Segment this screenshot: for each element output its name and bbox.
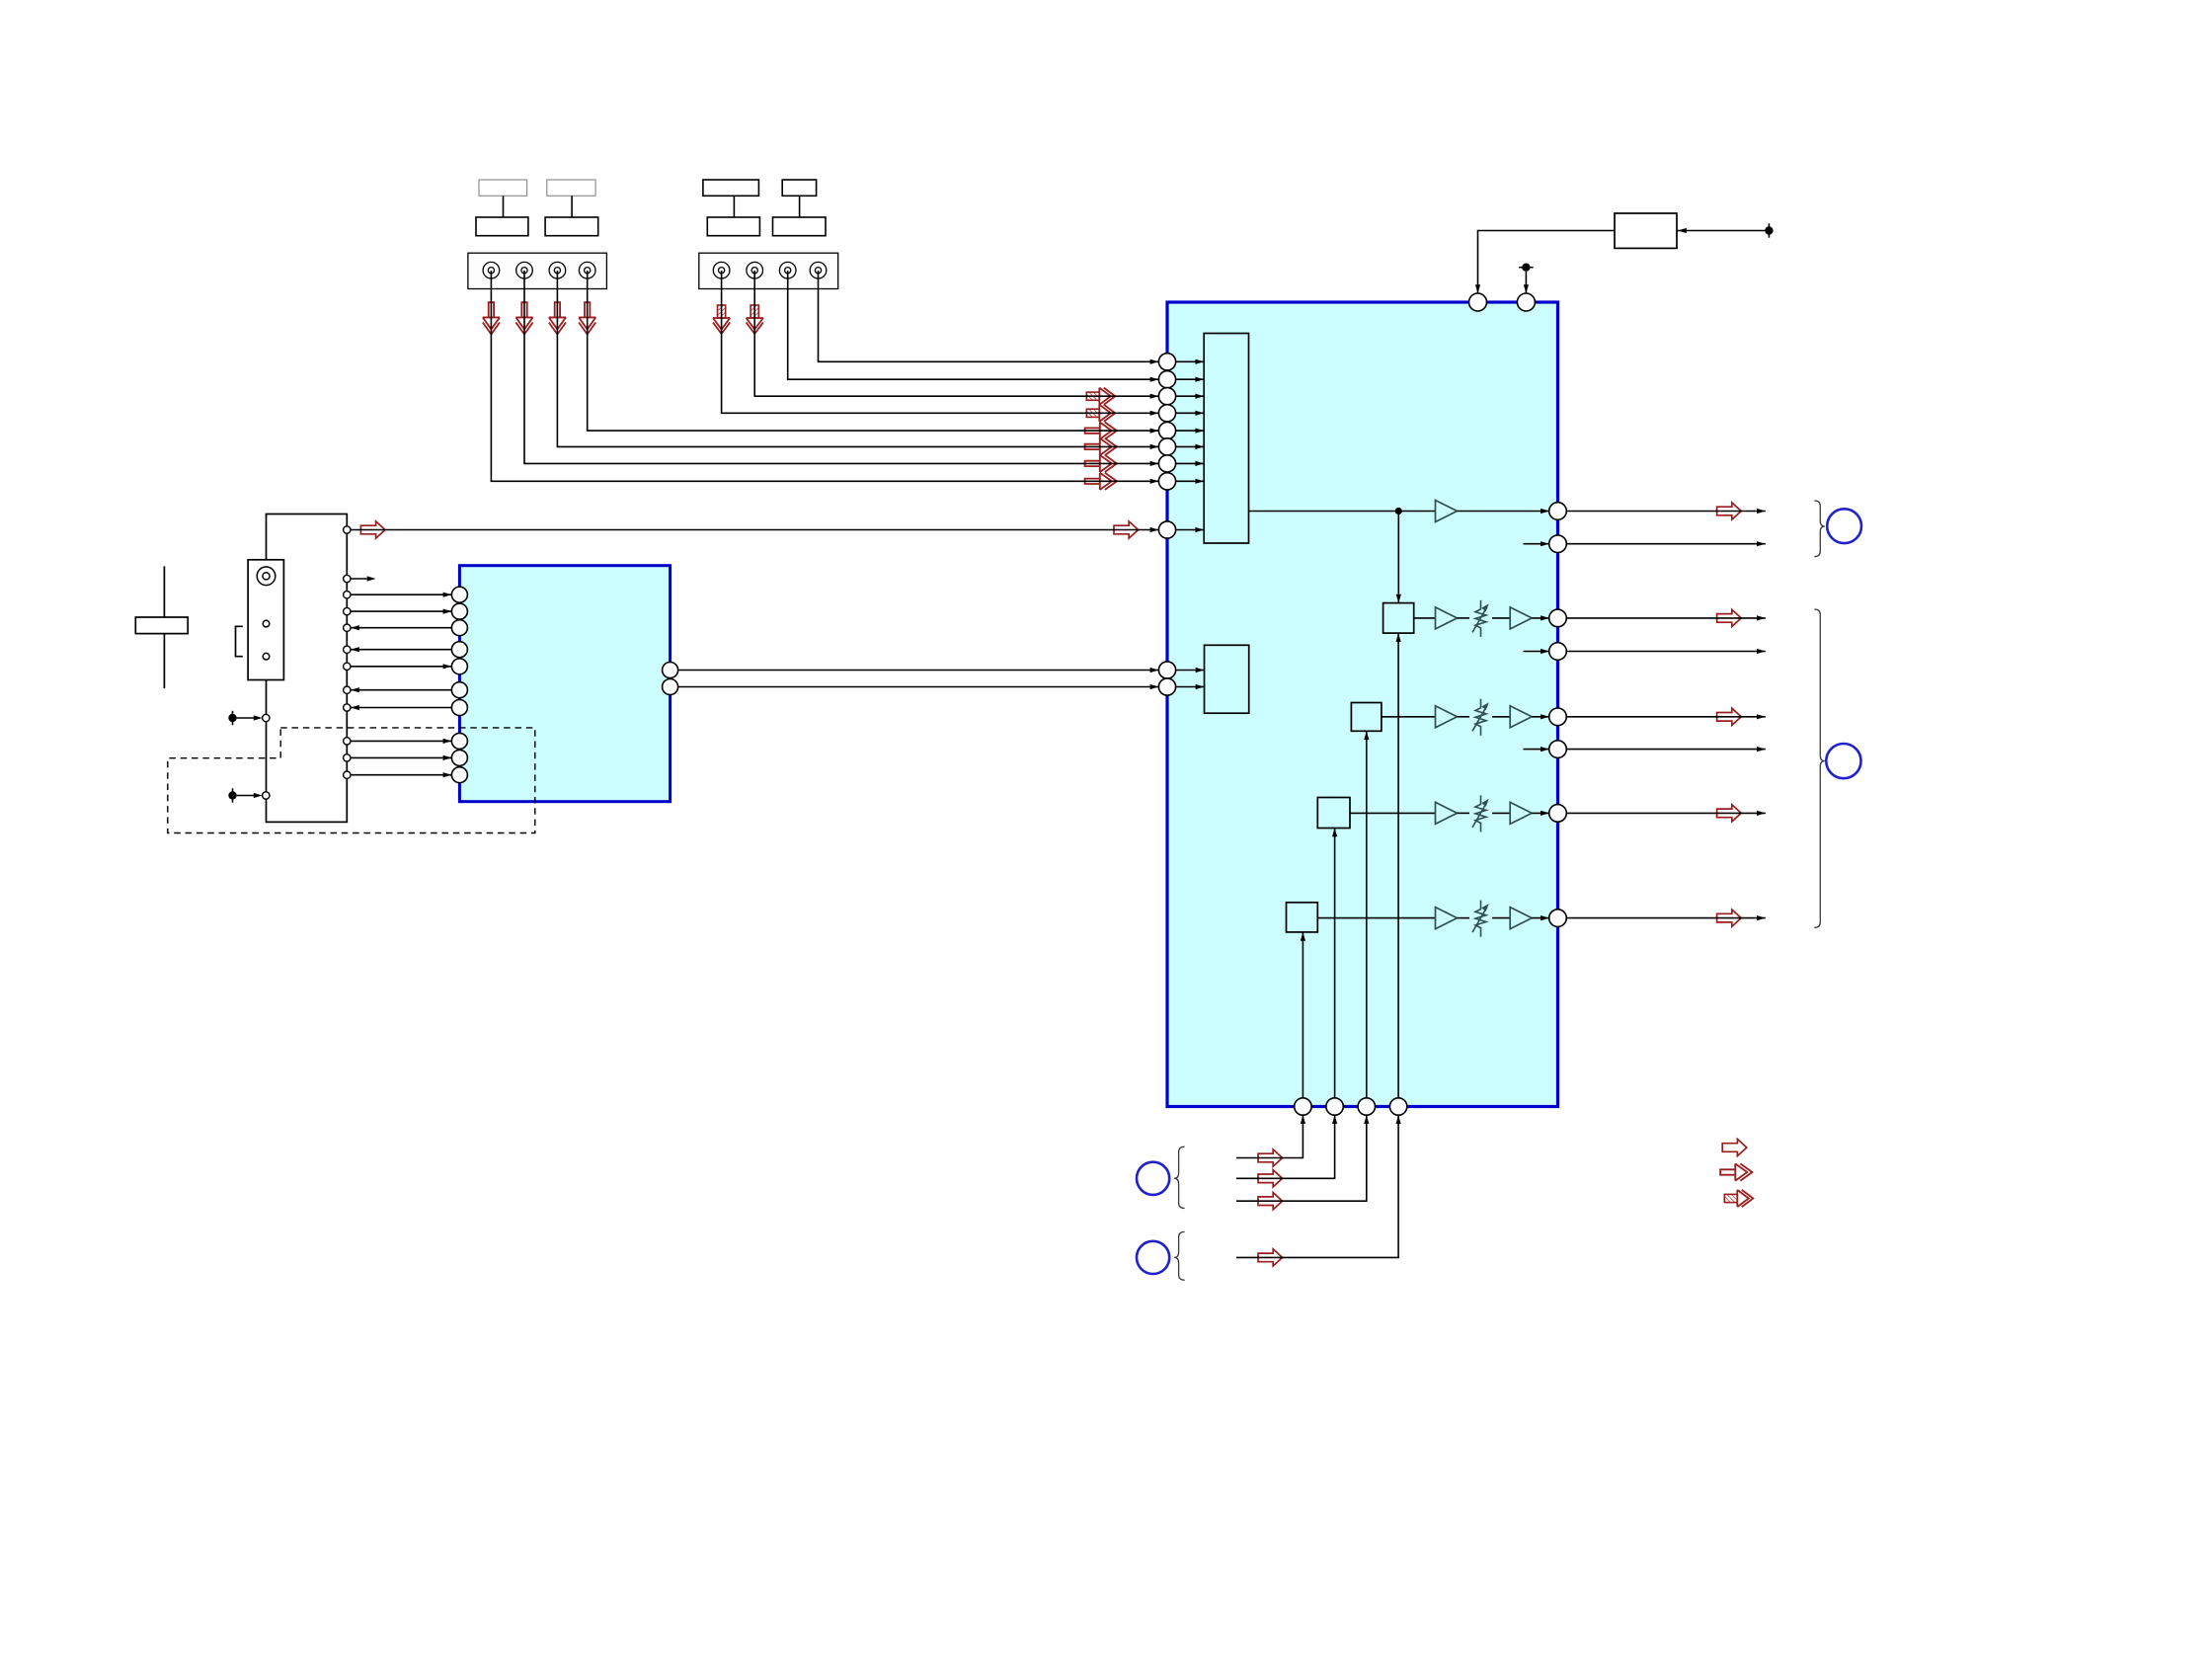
amp A3 row 726 xyxy=(1436,706,1458,728)
variable attenuator row 930 xyxy=(1475,901,1486,937)
wire amp to pin row 930 xyxy=(1532,917,1549,919)
wire stub to pin 1545 xyxy=(1525,272,1527,293)
wire amp to attenuator row 930 xyxy=(1458,917,1470,919)
brace control group 2 xyxy=(1174,1231,1185,1280)
frame pin dangling xyxy=(344,575,351,582)
wire control input 4 xyxy=(1258,1249,1283,1266)
frame pin left 2 xyxy=(263,792,270,799)
amp B3 row 726 xyxy=(1510,706,1532,728)
wire amp to pin row 726 xyxy=(1532,716,1549,718)
volume block VR2 xyxy=(1351,703,1382,732)
RCA jack panel J1 xyxy=(468,253,607,288)
volume block VR4 xyxy=(1287,903,1318,932)
pin circle IC1 input row 401 xyxy=(1158,388,1175,405)
amp B4 row 823 xyxy=(1510,802,1532,824)
frame-IC2 wire row 636 (L) xyxy=(344,624,351,631)
aux decoder block xyxy=(1205,645,1249,713)
signal arrow (hatched) row 418 xyxy=(1086,405,1115,422)
volume block VR1 xyxy=(1383,603,1414,634)
frame-IC2 wire row 750 (R) xyxy=(344,738,351,745)
switch contact small 1 xyxy=(263,620,270,627)
switch contact (double circle) xyxy=(257,567,276,586)
frame-IC2 wire row 699 (L) xyxy=(344,686,351,693)
return stub row 660 xyxy=(1524,651,1549,653)
wire jack x=828.5 to input row 366 xyxy=(819,271,1159,361)
wire amp to attenuator row 726 xyxy=(1458,716,1470,718)
wire attenuator to amp row 726 xyxy=(1492,716,1510,718)
wire jack x=564.4 to input row 452 xyxy=(557,271,1158,446)
connector ref CN4 xyxy=(1137,1241,1169,1274)
wire volume VR3 to amp xyxy=(1350,812,1436,814)
amp B2 row 626 xyxy=(1510,607,1532,629)
RCA jack J1-3 xyxy=(549,262,566,278)
brace output group 2 xyxy=(1814,609,1825,927)
wire jack x=764.2 to input row 401 xyxy=(754,271,1158,396)
return stub row 759 xyxy=(1524,749,1549,751)
signal arrow (hatched) row 401 xyxy=(1086,388,1115,405)
legend arrow chevron xyxy=(1720,1163,1752,1180)
pin circle IC1 input row 536 xyxy=(1158,521,1175,538)
frame pin left 1 xyxy=(263,714,270,721)
switch contact small 2 xyxy=(263,653,270,660)
wire switch to IC1 input row 536 xyxy=(360,521,385,538)
signal arrow (chevron) below jack x=531.0 xyxy=(515,302,532,334)
amp A2 row 626 xyxy=(1436,607,1458,629)
RCA jack J1-2 xyxy=(516,262,533,278)
signal arrow (hatched) below jack x=730.6 xyxy=(713,305,730,334)
RCA jack panel J2 xyxy=(699,253,838,288)
buffer amp A1 row 517 xyxy=(1436,501,1458,522)
variable attenuator row 626 xyxy=(1475,600,1486,637)
variable attenuator row 726 xyxy=(1475,699,1486,736)
frame-IC2 wire row 619 (R) xyxy=(344,607,351,614)
frame-IC2 wire row 675 (R) xyxy=(344,663,351,670)
wire IC2 to IC1 row 696 xyxy=(678,686,1159,688)
wire attenuator to amp row 626 xyxy=(1492,617,1510,619)
brace output group 1 xyxy=(1814,501,1825,557)
signal arrow (chevron) row 469 xyxy=(1085,455,1117,472)
amp A4 row 823 xyxy=(1436,802,1458,824)
pin circle IC1 input row 366 xyxy=(1158,354,1175,370)
wire jack x=594.7 to input row 436 xyxy=(588,271,1159,431)
wire amp to pin row 517 xyxy=(1458,511,1549,513)
frame-IC2 wire row 602 (R) xyxy=(344,592,351,598)
connector ref CN1 xyxy=(1827,509,1861,543)
output pin+line row 626 xyxy=(1549,609,1567,627)
signal arrow (chevron) below jack x=564.4 xyxy=(549,302,566,334)
amp B5 row 930 xyxy=(1510,908,1532,929)
connector symbol P1 top half xyxy=(479,180,527,196)
RCA jack J2-1 xyxy=(713,262,730,278)
frame pin out (to IC1) xyxy=(344,526,351,533)
pin circle IC1 bottom 4 xyxy=(1389,1098,1406,1115)
switch frame xyxy=(267,515,348,823)
return stub row 551 xyxy=(1524,543,1549,545)
legend arrow hatched xyxy=(1724,1190,1753,1207)
signal arrow (chevron) row 487 xyxy=(1085,473,1117,490)
wire amp to attenuator row 626 xyxy=(1458,617,1470,619)
output pin+line row 518 xyxy=(1549,503,1567,520)
output pin+line row 551 xyxy=(1549,535,1567,553)
wire supply to regulator xyxy=(1677,230,1769,232)
output pin+line row 726 xyxy=(1549,708,1567,726)
pin circle IC2 out row 695 xyxy=(663,679,678,695)
pin circle IC1 top 2 xyxy=(1517,293,1535,311)
signal arrow (chevron) row 436 xyxy=(1085,423,1117,439)
wire IC2 to IC1 row 678 xyxy=(678,670,1159,672)
wire jack x=730.6 to input row 418 xyxy=(722,271,1159,413)
wire volume VR2 to amp xyxy=(1382,716,1436,718)
wire amp to attenuator row 823 xyxy=(1458,812,1470,814)
pin circle IC1 top 1 xyxy=(1469,293,1487,311)
output pin+line row 660 xyxy=(1549,643,1567,661)
wire bottom pin 3 to volume xyxy=(1366,731,1368,1098)
switch actuator bracket xyxy=(236,626,243,656)
wire selector output row 517 xyxy=(1249,511,1436,513)
pin circle IC1 input row 384 xyxy=(1158,371,1175,388)
RCA jack J2-4 xyxy=(810,262,827,278)
net stub frame 1 xyxy=(232,711,234,725)
switch body xyxy=(248,560,283,680)
legend arrow plain xyxy=(1722,1139,1747,1155)
IC block IC1 (main signal processor) xyxy=(1167,302,1558,1107)
pin circle IC1 bottom 1 xyxy=(1295,1098,1311,1115)
signal arrow (chevron) row 452 xyxy=(1085,438,1117,455)
frame-IC2 wire row 767 (R) xyxy=(344,754,351,761)
connector symbol P4 xyxy=(782,180,816,196)
dashed option outline xyxy=(168,728,535,833)
signal arrow (chevron) below jack x=594.7 xyxy=(579,302,595,334)
IC block IC2 (left sub processor) xyxy=(459,566,670,802)
wire jack x=497.4 to input row 487 xyxy=(491,271,1158,481)
output pin+line row 930 xyxy=(1549,910,1567,927)
pin circle IC1 input row 469 xyxy=(1158,455,1175,472)
RCA jack J1-4 xyxy=(579,262,595,278)
pin circle IC1 input row 436 xyxy=(1158,423,1175,439)
wire control input 2 xyxy=(1258,1170,1283,1187)
pin circle IC1 aux input row 696 xyxy=(1158,678,1175,695)
wire amp to pin row 626 xyxy=(1532,617,1549,619)
wire jack x=531.0 to input row 469 xyxy=(524,271,1158,463)
RCA jack J1-1 xyxy=(483,262,500,278)
RCA jack J2-2 xyxy=(747,262,763,278)
wire control input 1 xyxy=(1258,1149,1283,1166)
connector ref CN2 xyxy=(1826,744,1860,778)
net stub supply xyxy=(1768,223,1770,237)
wire bottom pin 2 to volume xyxy=(1334,829,1336,1098)
signal arrow (hatched) below jack x=764.2 xyxy=(747,305,763,334)
regulator block xyxy=(1615,213,1677,248)
net stub to pin 1545 xyxy=(1519,267,1533,269)
wire attenuator to amp row 823 xyxy=(1492,812,1510,814)
signal arrow (chevron) below jack x=497.4 xyxy=(483,302,500,334)
pin circle IC1 aux input row 678 xyxy=(1158,662,1175,678)
amp A5 row 930 xyxy=(1436,908,1458,929)
output pin+line row 823 xyxy=(1549,805,1567,823)
variable attenuator row 823 xyxy=(1475,795,1486,831)
net stub frame 2 xyxy=(232,788,234,802)
wire bottom pin 1 to volume xyxy=(1302,932,1303,1098)
wire control input 3 xyxy=(1258,1193,1283,1210)
input selector block xyxy=(1204,334,1248,544)
pin circle IC1 input row 452 xyxy=(1158,438,1175,455)
antenna symbol xyxy=(163,566,165,688)
wire volume VR4 to amp xyxy=(1317,917,1435,919)
volume block VR3 xyxy=(1317,798,1350,829)
frame-IC2 wire row 658 (L) xyxy=(344,646,351,653)
wire power to pin 1496 xyxy=(1478,231,1616,294)
pin circle IC1 input row 418 xyxy=(1158,405,1175,422)
pin circle IC1 input row 487 xyxy=(1158,473,1175,490)
connector symbol P3 xyxy=(703,180,759,196)
pin circle IC1 bottom 2 xyxy=(1326,1098,1343,1115)
connector symbol P2 top half xyxy=(547,180,595,196)
wire junction to volume VR1 xyxy=(1397,512,1399,603)
pin circle IC1 bottom 3 xyxy=(1358,1098,1375,1115)
connector ref CN3 xyxy=(1137,1162,1169,1195)
frame-IC2 wire row 785 (R) xyxy=(344,771,351,778)
wire jack x=797.7 to input row 384 xyxy=(788,271,1159,379)
wire amp to pin row 823 xyxy=(1532,812,1549,814)
wire volume VR1 to amp xyxy=(1414,617,1436,619)
output pin+line row 759 xyxy=(1549,741,1567,758)
brace control group 1 xyxy=(1174,1147,1185,1208)
frame-IC2 wire row 716 (L) xyxy=(344,704,351,711)
wire attenuator to amp row 930 xyxy=(1492,917,1510,919)
pin circle IC2 out row 678 xyxy=(663,663,678,678)
RCA jack J2-3 xyxy=(779,262,796,278)
wire bottom pin 4 to volume xyxy=(1397,633,1399,1098)
